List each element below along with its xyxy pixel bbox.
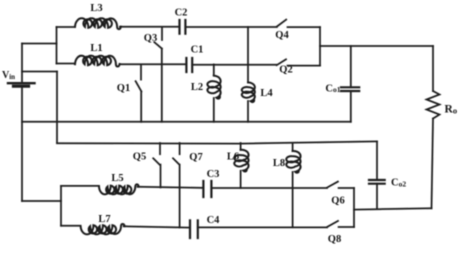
svg-text:Co2: Co2	[391, 178, 406, 189]
inductor L4	[242, 82, 255, 121]
wire L1 to C1	[120, 63, 186, 65]
wire Q4/Q2 right vertical	[319, 27, 321, 66]
svg-text:L4: L4	[260, 88, 273, 99]
svg-text:Q5: Q5	[133, 152, 146, 163]
switch Q3	[154, 27, 162, 122]
wire C2 to Q4	[185, 26, 276, 28]
wire output top	[320, 45, 433, 47]
svg-text:L2: L2	[191, 82, 203, 93]
inductor L2	[207, 64, 220, 121]
wire Q6 to right vertical	[339, 187, 354, 189]
capacitor Co1	[341, 46, 359, 122]
svg-text:Q2: Q2	[279, 65, 292, 76]
switch Q6	[327, 182, 338, 188]
wire Vin mid feed to second stage	[22, 71, 57, 73]
wire Vin top to L3/L1 node	[22, 43, 57, 45]
svg-text:L5: L5	[111, 173, 123, 184]
svg-text:C4: C4	[207, 215, 221, 226]
svg-text:Q4: Q4	[275, 30, 289, 41]
wire L5 to C3	[138, 187, 204, 188]
inductor L7	[81, 224, 125, 234]
switch Q5	[153, 143, 160, 187]
wire bottom rail stage1	[22, 121, 351, 123]
wire Q6/Q8 right vertical	[353, 188, 355, 227]
node B: L5/L7 left vertical	[60, 186, 62, 226]
wire L7 left lead	[61, 225, 81, 227]
wire Q4/Q2 left vertical to L4	[247, 27, 249, 82]
capacitor C2	[180, 20, 186, 34]
wire Q4 to right corner	[288, 26, 321, 28]
wire L5 left lead	[61, 185, 99, 187]
wire Vin bottom feed	[22, 200, 61, 202]
node A: L3/L1 left vertical	[56, 27, 58, 64]
wire L7 to C4	[124, 226, 190, 227]
switch Q4	[277, 20, 286, 27]
svg-text:C3: C3	[207, 169, 220, 180]
svg-text:Q1: Q1	[117, 83, 130, 94]
svg-text:L8: L8	[273, 158, 285, 169]
switch Q1	[136, 64, 142, 121]
svg-text:Q7: Q7	[189, 152, 202, 163]
inductor L8	[286, 143, 300, 227]
svg-text:L3: L3	[90, 3, 102, 14]
wire C4 to Q8	[198, 226, 327, 228]
svg-text:C2: C2	[175, 8, 188, 19]
source Vin battery	[8, 44, 35, 202]
wire C1 to Q2	[192, 64, 276, 66]
inductor L3	[75, 18, 121, 29]
wire Q8 to right vertical	[339, 226, 354, 228]
wire top rail left lead	[57, 26, 76, 28]
svg-text:C1: C1	[191, 45, 204, 56]
capacitor Co2	[369, 141, 385, 208]
wire L1 left lead	[57, 63, 76, 65]
svg-text:Co1: Co1	[325, 84, 340, 95]
switch Q2	[277, 59, 286, 65]
wire output bottom	[354, 208, 432, 209]
svg-text:Q3: Q3	[144, 33, 157, 44]
wire Ro top lead	[432, 46, 434, 91]
svg-text:L6: L6	[227, 152, 239, 163]
wire L3 to C2	[120, 26, 180, 28]
svg-text:Ro: Ro	[445, 104, 458, 116]
switch Q8	[327, 221, 338, 227]
svg-text:L7: L7	[98, 214, 110, 225]
svg-text:L1: L1	[90, 43, 102, 54]
wire C3 to Q6	[211, 187, 327, 189]
resistor Ro	[427, 91, 440, 119]
svg-text:Q6: Q6	[331, 196, 344, 207]
wire Ro bottom lead	[432, 119, 434, 209]
capacitor C3	[203, 181, 211, 197]
svg-text:Q8: Q8	[328, 234, 341, 245]
capacitor C4	[190, 220, 198, 238]
inductor L5	[99, 184, 139, 194]
wire second-stage feed vertical	[56, 72, 58, 144]
wire Q2 to right corner	[288, 65, 321, 67]
wire second rail	[57, 141, 377, 143]
inductor L6	[234, 143, 248, 188]
capacitor C1	[186, 58, 192, 72]
inductor L1	[75, 56, 120, 67]
switch Q7	[173, 143, 180, 227]
